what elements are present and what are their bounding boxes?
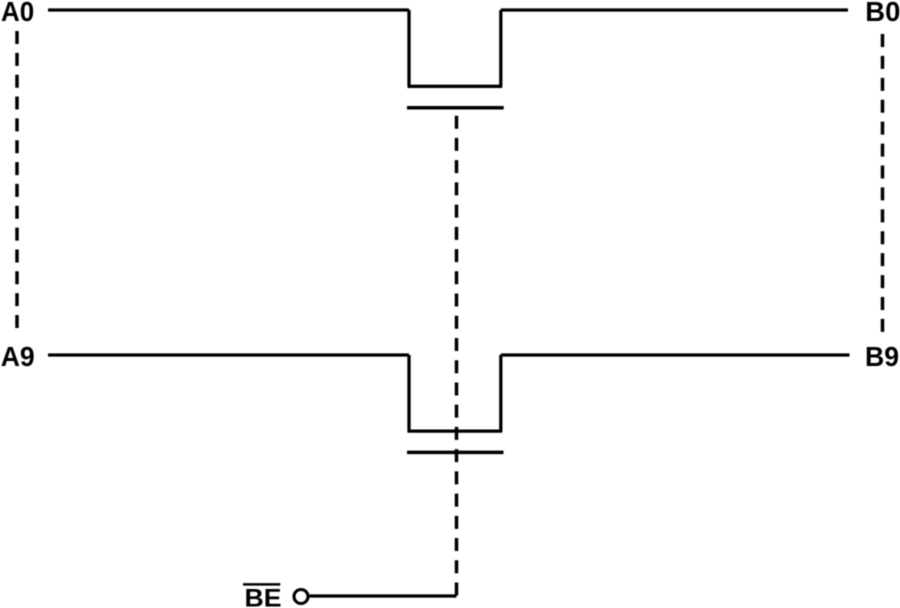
svg-text:BE: BE (245, 584, 282, 608)
transistor Q2 gate bar (407, 451, 504, 455)
dashed continuation B0..B9 (881, 34, 885, 332)
wire BE bubble to gate net (310, 594, 457, 597)
wire switch Q1 to B0 (501, 8, 848, 11)
svg-text:B9: B9 (865, 341, 899, 372)
net BE gate line (dashed, Q1 gate to Q2 gate to BE wire) (455, 116, 459, 596)
transistor Q1 source-drain channel (pass switch, A0-B0) (408, 10, 503, 86)
wire A9 to switch Q2 (48, 353, 409, 356)
svg-text:A0: A0 (1, 0, 34, 27)
transistor Q1 gate bar (407, 106, 504, 110)
svg-text:B0: B0 (865, 0, 900, 27)
inverter bubble on BE input (294, 590, 308, 604)
wire switch Q2 to B9 (501, 353, 850, 356)
transistor Q2 source-drain channel (pass switch, A9-B9) (408, 355, 503, 431)
overline on BE label (243, 583, 280, 586)
dashed continuation A0..A9 (15, 31, 19, 328)
svg-text:A9: A9 (1, 341, 35, 372)
wire A0 to switch Q1 (48, 8, 409, 11)
